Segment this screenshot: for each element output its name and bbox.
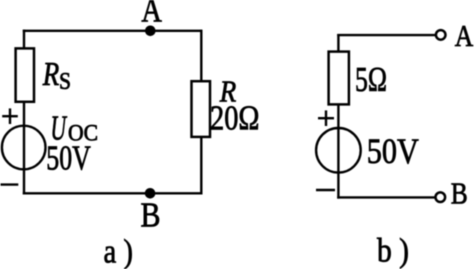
svg-text:a ): a ) bbox=[104, 233, 134, 269]
resistor RS bbox=[16, 48, 34, 101]
wire right vertical upper (a) bbox=[200, 30, 202, 82]
svg-text:B: B bbox=[451, 176, 468, 211]
svg-text:R: R bbox=[42, 56, 59, 93]
wire from RS to bottom through source (a) bbox=[23, 101, 25, 194]
node A bbox=[145, 26, 156, 37]
resistor R bbox=[192, 81, 211, 137]
label U OC bbox=[51, 109, 99, 148]
svg-text:50V: 50V bbox=[367, 131, 419, 171]
node B bbox=[145, 188, 156, 199]
label RS bbox=[42, 56, 71, 95]
svg-text:50V: 50V bbox=[46, 138, 91, 177]
terminal A (open circle) bbox=[436, 30, 446, 40]
wire bottom horizontal (a) bbox=[23, 192, 203, 194]
plus sign (b) bbox=[318, 110, 334, 126]
voltage source circle (a) bbox=[2, 126, 46, 170]
plus sign (a) bbox=[2, 108, 18, 124]
wire through source (b) bbox=[337, 104, 339, 198]
wire bottom horizontal (b) bbox=[337, 196, 435, 198]
wire left vertical top segment (b) bbox=[337, 34, 339, 53]
svg-text:S: S bbox=[59, 69, 71, 95]
minus sign (b) bbox=[316, 189, 335, 191]
wire left vertical top segment (a) bbox=[23, 30, 25, 50]
terminal B (open circle) bbox=[436, 192, 446, 202]
voltage source circle (b) bbox=[316, 128, 361, 173]
svg-text:A: A bbox=[141, 0, 162, 30]
wire top horizontal (a) bbox=[23, 30, 202, 32]
wire top horizontal (b) bbox=[337, 34, 435, 36]
svg-text:20Ω: 20Ω bbox=[210, 98, 260, 137]
wire right vertical lower (a) bbox=[200, 137, 202, 195]
svg-text:B: B bbox=[141, 196, 161, 235]
svg-text:5Ω: 5Ω bbox=[355, 60, 387, 99]
svg-text:A: A bbox=[455, 18, 474, 53]
resistor 5 ohm bbox=[329, 52, 349, 105]
svg-text:b ): b ) bbox=[377, 232, 409, 269]
minus sign (a) bbox=[1, 183, 19, 185]
